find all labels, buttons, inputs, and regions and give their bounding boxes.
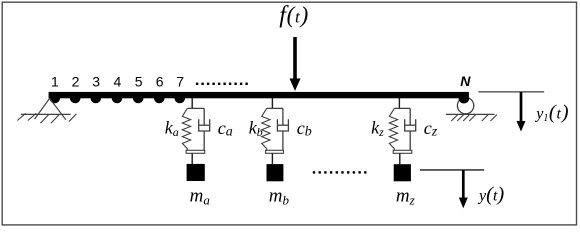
unit z: rod from beam [398,98,400,108]
beam [49,92,469,98]
svg-text:ca: ca [218,118,233,139]
unit b: rod from beam [271,98,273,108]
dots after node 7 [196,83,248,85]
svg-text:4: 4 [114,73,122,89]
spring k_z [389,108,397,150]
beam node bump 7 [175,98,186,103]
svg-text:cz: cz [424,118,438,139]
unit b bottom plate [266,150,284,153]
unit a bottom plate [186,150,205,153]
roller circle (right support) [457,97,473,113]
force arrow [290,37,301,91]
damper c_z rod [409,108,411,125]
svg-text:5: 5 [135,73,143,89]
unit a: top bar [187,107,204,109]
damper c_b lower rod [282,131,284,150]
mass m_a [187,164,205,181]
damper c_b rod [282,108,284,125]
svg-text:mb: mb [269,186,290,208]
y reference line from mass m_z [420,169,484,171]
unit b mass rod [271,153,273,164]
beam node bump 6 [154,98,165,103]
mass m_b [267,164,284,181]
left ground line [21,113,71,115]
beam node bump 4 [112,98,123,103]
damper c_a piston [199,124,210,126]
damper c_a cup [199,119,210,131]
dots between unit b and unit z [313,171,367,173]
beam node bump 1 [50,98,61,103]
left ground hatching [17,113,76,123]
beam node bump 2 [70,98,81,103]
svg-text:2: 2 [72,73,80,89]
y1 arrow [517,92,526,132]
unit a mass rod [191,153,193,164]
spring k_a [182,108,190,150]
beam node bump 5 [133,98,144,103]
svg-text:y1(t): y1(t) [534,102,568,125]
unit a: rod from beam [191,98,193,108]
unit z mass rod [399,153,401,164]
right ground hatching [451,115,497,121]
damper c_z cup [405,119,416,131]
svg-text:3: 3 [92,73,100,89]
svg-text:mz: mz [396,186,415,208]
damper c_b cup [277,119,288,131]
svg-text:N: N [460,73,471,89]
mass m_z [394,164,411,181]
pin support triangle (left) [35,98,66,120]
svg-text:7: 7 [176,73,184,89]
right ground line [446,113,495,115]
y1 reference line [478,91,544,93]
svg-text:cb: cb [297,118,312,139]
damper c_b piston [277,124,288,126]
svg-text:ma: ma [190,185,211,207]
damper c_a lower rod [203,131,205,150]
damper c_z lower rod [409,131,411,150]
damper c_a rod [203,108,205,125]
beam node bump N (right end) [459,98,470,103]
beam node bump 3 [91,98,102,103]
svg-text:kb: kb [249,118,263,140]
svg-text:y(t): y(t) [477,184,504,206]
unit z: top bar [394,107,410,109]
damper c_z piston [405,124,416,126]
svg-text:6: 6 [156,73,164,89]
unit z bottom plate [393,150,412,153]
svg-text:kz: kz [371,118,384,140]
svg-text:f(t): f(t) [279,2,308,28]
svg-text:1: 1 [51,73,59,89]
spring k_b [262,108,270,150]
unit b: top bar [267,107,283,109]
y arrow [459,170,468,208]
svg-text:ka: ka [165,118,179,140]
